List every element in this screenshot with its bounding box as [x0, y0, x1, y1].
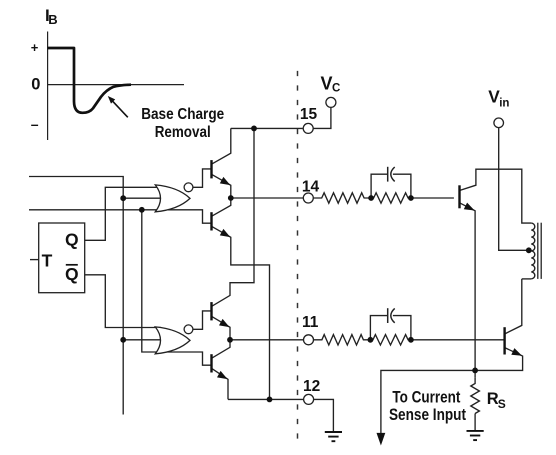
- svg-text:–: –: [31, 116, 39, 132]
- svg-text:To Current: To Current: [392, 387, 460, 406]
- svg-text:V: V: [321, 74, 333, 94]
- svg-text:+: +: [31, 40, 39, 55]
- svg-text:Q: Q: [65, 264, 79, 284]
- svg-text:0: 0: [31, 76, 40, 94]
- svg-text:T: T: [42, 251, 53, 271]
- svg-text:15: 15: [300, 106, 318, 123]
- svg-text:C: C: [332, 83, 340, 95]
- svg-text:in: in: [499, 97, 509, 109]
- svg-text:14: 14: [302, 178, 320, 195]
- svg-text:Base Charge: Base Charge: [141, 106, 224, 123]
- svg-text:B: B: [48, 12, 57, 27]
- svg-text:12: 12: [303, 378, 320, 395]
- svg-text:Removal: Removal: [155, 124, 211, 141]
- svg-text:11: 11: [302, 314, 319, 331]
- svg-text:Q: Q: [65, 229, 79, 249]
- svg-text:S: S: [498, 397, 506, 411]
- svg-text:Sense Input: Sense Input: [389, 405, 466, 424]
